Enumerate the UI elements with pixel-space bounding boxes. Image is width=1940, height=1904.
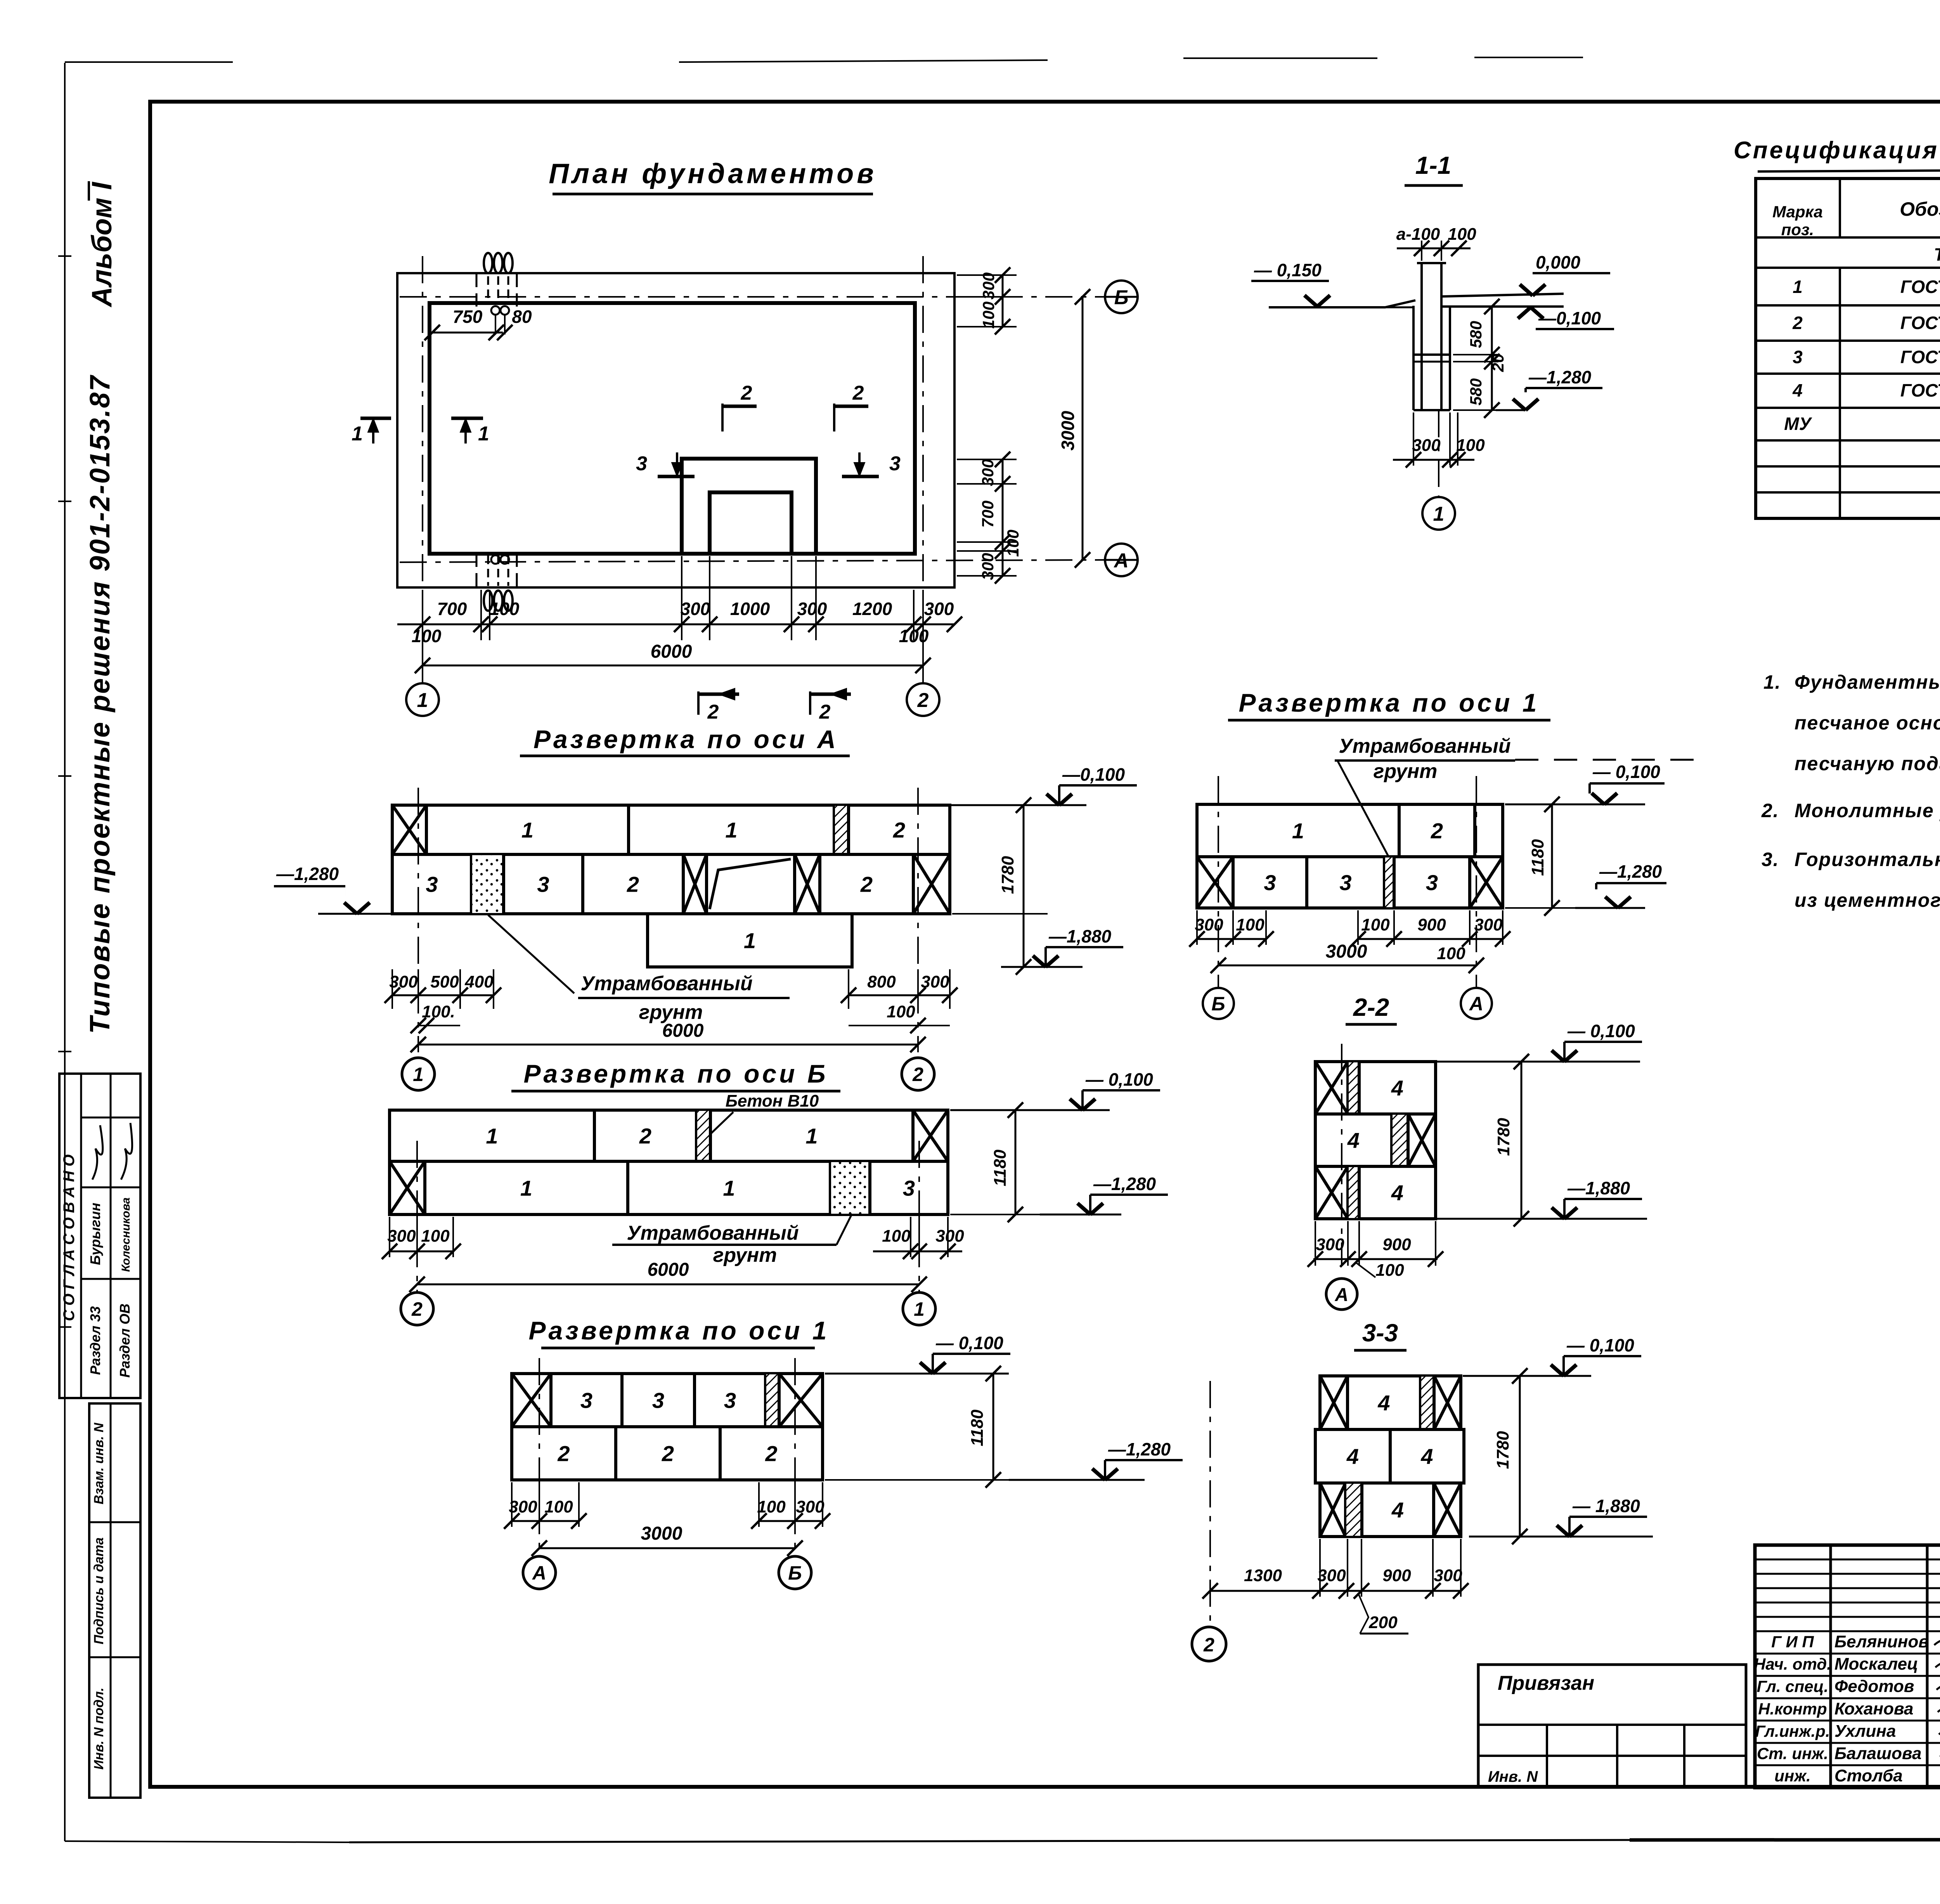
svg-text:из цементного раствора сост: из цементного раствора состава 1:2 на от… (1794, 889, 1940, 911)
svg-text:2: 2 (1431, 819, 1443, 843)
svg-text:Инв. N подл.: Инв. N подл. (92, 1687, 106, 1770)
svg-text:100: 100 (979, 301, 998, 329)
svg-text:грунт: грунт (713, 1244, 777, 1266)
svg-text:100: 100 (412, 626, 442, 646)
svg-text:4: 4 (1420, 1444, 1433, 1469)
svg-text:Б: Б (788, 1562, 802, 1584)
svg-text:Развертка по оси 1: Развертка по оси 1 (1239, 688, 1540, 717)
svg-text:300: 300 (921, 972, 949, 991)
svg-text:Альбом I: Альбом I (87, 181, 118, 307)
svg-text:300: 300 (797, 599, 827, 619)
svg-text:—1,880: —1,880 (1567, 1178, 1630, 1198)
svg-text:1000: 1000 (730, 599, 770, 619)
svg-text:3: 3 (426, 872, 438, 897)
svg-text:Горизонтальная гидроизоляция: Горизонтальная гидроизоляция стен выполн… (1794, 849, 1940, 870)
svg-text:Гл.инж.р.: Гл.инж.р. (1755, 1722, 1830, 1740)
svg-text:100: 100 (1456, 436, 1485, 455)
svg-text:1200: 1200 (852, 599, 892, 619)
svg-text:1180: 1180 (968, 1409, 987, 1446)
svg-text:Гл. спец.: Гл. спец. (1757, 1677, 1829, 1696)
svg-text:ГОСТ 13579-78: ГОСТ 13579-78 (1900, 380, 1940, 400)
svg-text:1: 1 (521, 818, 533, 842)
svg-text:1780: 1780 (1494, 1118, 1513, 1156)
svg-text:— 0,150: — 0,150 (1254, 260, 1322, 280)
svg-text:Балашова: Балашова (1834, 1744, 1921, 1763)
svg-text:300: 300 (387, 1227, 416, 1246)
svg-text:поз.: поз. (1781, 220, 1814, 239)
svg-text:700: 700 (437, 599, 467, 619)
svg-text:а-100: а-100 (1396, 225, 1440, 244)
svg-text:900: 900 (1382, 1566, 1411, 1585)
svg-text:3: 3 (1793, 347, 1803, 367)
svg-text:—1,280: —1,280 (1108, 1439, 1171, 1459)
svg-text:2: 2 (893, 818, 905, 842)
svg-text:2: 2 (860, 872, 873, 897)
svg-text:Б: Б (1211, 993, 1225, 1015)
svg-text:— 0,100: — 0,100 (1592, 762, 1660, 782)
svg-text:1: 1 (417, 689, 428, 712)
svg-text:3000: 3000 (641, 1523, 682, 1544)
svg-text:1780: 1780 (1493, 1431, 1512, 1469)
svg-text:Коханова: Коханова (1834, 1699, 1913, 1718)
svg-text:Бурыгин: Бурыгин (87, 1202, 103, 1265)
svg-text:1: 1 (1793, 277, 1803, 297)
svg-text:2-2: 2-2 (1353, 993, 1389, 1021)
svg-text:А: А (1469, 993, 1483, 1015)
svg-text:100: 100 (882, 1227, 911, 1246)
svg-text:1180: 1180 (1528, 839, 1547, 876)
svg-text:300: 300 (509, 1497, 537, 1516)
svg-text:20: 20 (1489, 354, 1507, 372)
svg-text:2.: 2. (1761, 800, 1779, 821)
svg-text:2: 2 (917, 689, 929, 712)
svg-text:1: 1 (478, 423, 489, 445)
svg-text:Утрамбованный: Утрамбованный (1339, 735, 1510, 757)
svg-text:Развертка по оси Б: Развертка по оси Б (523, 1059, 828, 1088)
svg-text:Белянинов: Белянинов (1834, 1632, 1929, 1651)
svg-text:1: 1 (805, 1124, 818, 1148)
svg-text:750: 750 (453, 307, 483, 327)
svg-text:1: 1 (413, 1064, 424, 1085)
svg-text:300: 300 (1317, 1566, 1346, 1585)
svg-text:2: 2 (411, 1298, 423, 1320)
svg-text:Утрамбованный: Утрамбованный (627, 1222, 799, 1244)
svg-text:Нач. отд.: Нач. отд. (1754, 1655, 1831, 1673)
svg-text:—1,280: —1,280 (1093, 1174, 1156, 1194)
svg-text:Монолитные участки выполня: Монолитные участки выполняются из бетона… (1794, 800, 1940, 821)
svg-text:80: 80 (512, 307, 532, 327)
svg-text:4: 4 (1391, 1181, 1403, 1205)
svg-text:1: 1 (914, 1298, 925, 1320)
svg-text:Спецификация сборных бетонны: Спецификация сборных бетонных блоков фун… (1734, 137, 1940, 164)
svg-text:Обозначение: Обозначение (1900, 198, 1940, 220)
svg-text:Колесникова: Колесникова (120, 1197, 132, 1272)
svg-text:Толщина наружных стен а=300: Толщина наружных стен а=300 мм и а=400 м… (1934, 244, 1940, 265)
svg-text:800: 800 (867, 972, 896, 991)
svg-text:300: 300 (1434, 1566, 1462, 1585)
svg-text:100: 100 (1004, 530, 1022, 557)
svg-text:1780: 1780 (998, 856, 1017, 894)
svg-text:3000: 3000 (1326, 941, 1367, 962)
svg-text:100: 100 (490, 599, 520, 619)
svg-text:2: 2 (852, 382, 864, 404)
svg-text:— 0,100: — 0,100 (1085, 1069, 1153, 1090)
svg-text:1180: 1180 (991, 1149, 1010, 1186)
svg-text:300: 300 (979, 459, 997, 486)
svg-text:4: 4 (1391, 1498, 1404, 1522)
svg-text:2: 2 (912, 1064, 923, 1085)
svg-text:Г И П: Г И П (1771, 1633, 1814, 1651)
svg-text:2: 2 (662, 1441, 674, 1466)
svg-text:6000: 6000 (648, 1260, 689, 1280)
svg-text:2: 2 (765, 1441, 777, 1466)
svg-text:1: 1 (520, 1176, 532, 1201)
svg-text:3000: 3000 (1058, 411, 1078, 450)
svg-text:300: 300 (979, 272, 998, 300)
svg-text:900: 900 (1417, 915, 1446, 934)
svg-text:План фундаментов: План фундаментов (549, 158, 876, 189)
svg-text:Бетон В10: Бетон В10 (726, 1091, 819, 1111)
svg-text:300: 300 (935, 1227, 964, 1246)
svg-text:Федотов: Федотов (1834, 1677, 1914, 1696)
svg-text:1: 1 (723, 1176, 735, 1201)
svg-text:500: 500 (430, 972, 459, 991)
svg-text:100: 100 (757, 1497, 786, 1516)
svg-text:3: 3 (1264, 870, 1276, 895)
svg-text:Утрамбованный: Утрамбованный (580, 972, 752, 995)
svg-text:4: 4 (1347, 1128, 1360, 1153)
svg-text:—1,280: —1,280 (1528, 367, 1592, 387)
svg-text:Н.контр: Н.контр (1758, 1700, 1827, 1718)
svg-text:580: 580 (1467, 378, 1485, 405)
svg-text:Взам. инв. N: Взам. инв. N (92, 1422, 106, 1504)
svg-text:4: 4 (1377, 1391, 1390, 1415)
svg-text:—1,880: —1,880 (1048, 926, 1112, 946)
svg-text:ГОСТ 13579-78: ГОСТ 13579-78 (1900, 277, 1940, 297)
svg-text:4: 4 (1391, 1076, 1403, 1100)
svg-text:2: 2 (1203, 1634, 1214, 1656)
svg-text:1: 1 (744, 929, 756, 953)
svg-text:ГОСТ 13579-78: ГОСТ 13579-78 (1900, 313, 1940, 333)
svg-text:2: 2 (639, 1124, 651, 1148)
svg-text:грунт: грунт (1374, 760, 1438, 783)
svg-text:Типовые проектные решени: Типовые проектные решения 901-2-0153.87 (85, 374, 116, 1034)
svg-text:Развертка по оси А: Развертка по оси А (533, 725, 838, 754)
svg-text:3: 3 (537, 872, 549, 897)
svg-text:3: 3 (1339, 870, 1351, 895)
svg-text:—1,280: —1,280 (1599, 861, 1662, 882)
svg-text:100: 100 (899, 626, 929, 646)
svg-text:2: 2 (627, 872, 639, 897)
svg-text:Привязан: Привязан (1498, 1672, 1594, 1694)
svg-text:100: 100 (1361, 915, 1390, 934)
svg-text:300: 300 (796, 1497, 824, 1516)
svg-text:100: 100 (1448, 225, 1476, 244)
svg-text:3: 3 (636, 452, 647, 475)
svg-text:300: 300 (1316, 1235, 1344, 1254)
svg-text:инж.: инж. (1774, 1767, 1811, 1785)
svg-text:1: 1 (1433, 503, 1445, 525)
svg-text:песчаное основание (при пес: песчаное основание (при песчаных грунтах… (1794, 712, 1940, 734)
svg-text:3: 3 (903, 1176, 915, 1201)
svg-text:100: 100 (1236, 915, 1264, 934)
svg-text:3.: 3. (1762, 849, 1779, 870)
svg-text:Марка: Марка (1772, 203, 1823, 221)
svg-text:Фундаментные блоки укладываю: Фундаментные блоки укладываются на- выра… (1794, 671, 1940, 693)
svg-text:ГОСТ 13579-78: ГОСТ 13579-78 (1900, 347, 1940, 367)
svg-text:3-3: 3-3 (1362, 1319, 1398, 1347)
svg-text:Раздел ОВ: Раздел ОВ (117, 1303, 133, 1377)
svg-text:2: 2 (707, 701, 719, 723)
svg-text:1: 1 (486, 1124, 498, 1148)
svg-text:Москалец: Москалец (1834, 1655, 1918, 1674)
svg-text:6000: 6000 (651, 641, 692, 662)
svg-text:3: 3 (724, 1388, 736, 1413)
svg-text:1: 1 (725, 818, 737, 842)
svg-text:3: 3 (889, 452, 901, 475)
svg-text:С О Г Л А С О В А Н О: С О Г Л А С О В А Н О (61, 1154, 78, 1321)
svg-text:580: 580 (1467, 321, 1485, 348)
svg-text:— 0,100: — 0,100 (1566, 1335, 1634, 1355)
svg-text:3: 3 (580, 1388, 592, 1413)
svg-text:Раздел 33: Раздел 33 (87, 1306, 103, 1375)
svg-text:200: 200 (1368, 1613, 1398, 1632)
svg-text:МУ: МУ (1784, 414, 1812, 434)
svg-text:2: 2 (557, 1441, 570, 1466)
svg-text:300: 300 (924, 599, 954, 619)
svg-text:3: 3 (652, 1388, 664, 1413)
svg-text:100: 100 (1375, 1261, 1404, 1280)
svg-text:Столба: Столба (1834, 1766, 1903, 1785)
svg-text:100: 100 (421, 1227, 450, 1246)
svg-text:2: 2 (1792, 313, 1803, 333)
svg-text:100: 100 (887, 1002, 915, 1021)
svg-text:900: 900 (1382, 1235, 1411, 1254)
svg-text:0,000: 0,000 (1536, 252, 1581, 272)
svg-text:1: 1 (1292, 819, 1304, 843)
svg-text:— 0,100: — 0,100 (935, 1333, 1003, 1353)
svg-text:Подпись и дата: Подпись и дата (92, 1537, 106, 1644)
svg-text:2: 2 (741, 382, 752, 404)
svg-text:4: 4 (1346, 1444, 1359, 1469)
svg-text:—0,100: —0,100 (1538, 308, 1601, 328)
svg-text:песчаную подготовку δ = 50: песчаную подготовку δ = 50 мм. (1794, 753, 1940, 774)
svg-text:3: 3 (1426, 870, 1438, 895)
svg-text:А: А (1335, 1285, 1349, 1305)
svg-text:1.: 1. (1763, 671, 1781, 693)
svg-text:100: 100 (544, 1497, 573, 1516)
svg-text:300: 300 (1474, 915, 1503, 934)
svg-text:—1,280: —1,280 (276, 864, 339, 884)
svg-text:— 1,880: — 1,880 (1572, 1496, 1640, 1516)
svg-text:2: 2 (819, 701, 831, 723)
svg-text:1: 1 (352, 423, 363, 445)
svg-text:1-1: 1-1 (1415, 151, 1452, 179)
svg-text:400: 400 (464, 972, 494, 991)
svg-text:100.: 100. (422, 1002, 455, 1021)
svg-text:— 0,100: — 0,100 (1567, 1021, 1635, 1041)
svg-text:1300: 1300 (1244, 1566, 1282, 1585)
svg-text:300: 300 (1412, 436, 1441, 455)
svg-text:Ухлина: Ухлина (1834, 1722, 1896, 1741)
svg-text:300: 300 (979, 553, 997, 580)
svg-text:6000: 6000 (662, 1020, 704, 1041)
svg-text:А: А (532, 1562, 546, 1584)
svg-text:700: 700 (979, 501, 997, 528)
svg-text:—0,100: —0,100 (1062, 764, 1125, 785)
svg-text:4: 4 (1792, 380, 1803, 400)
svg-text:300: 300 (1195, 915, 1223, 934)
svg-text:300: 300 (389, 972, 418, 991)
svg-text:300: 300 (681, 599, 710, 619)
svg-text:Ст. инж.: Ст. инж. (1757, 1744, 1828, 1762)
svg-text:Развертка по оси 1: Развертка по оси 1 (529, 1316, 830, 1345)
svg-text:Инв. N: Инв. N (1488, 1768, 1538, 1785)
svg-text:100: 100 (1437, 944, 1465, 963)
